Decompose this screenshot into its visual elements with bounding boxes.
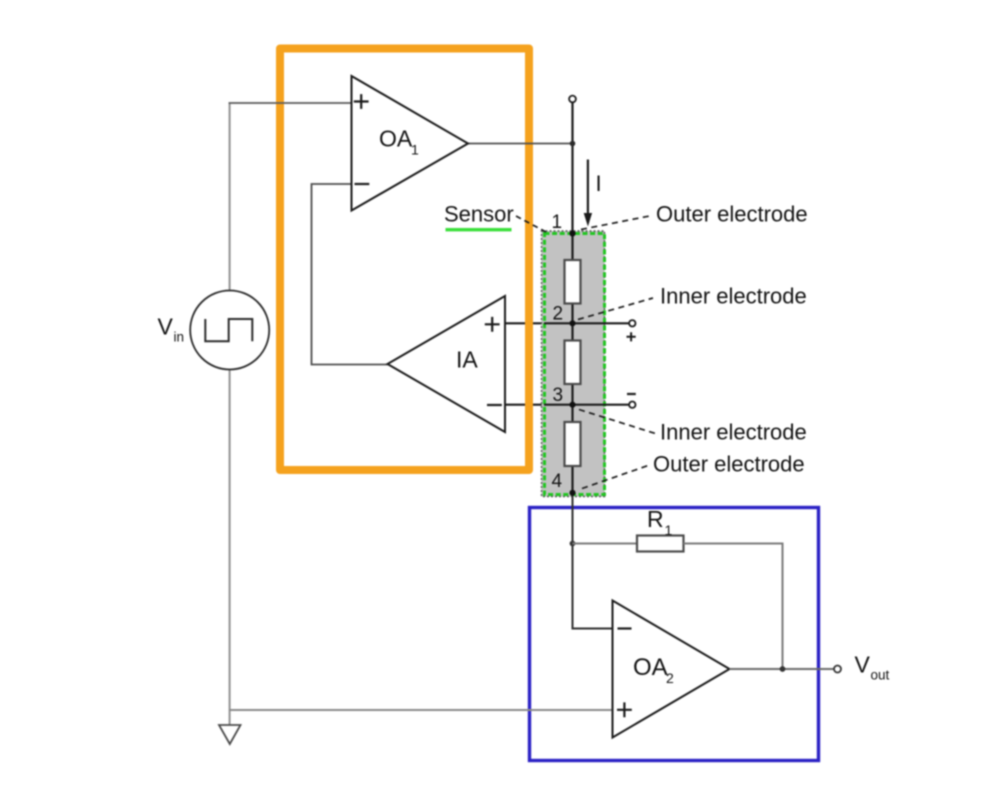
source Vin circle	[190, 291, 269, 370]
wire node2 to sense terminal +	[544, 322, 629, 324]
svg-text:2: 2	[553, 304, 564, 325]
wire node3 to sense terminal -	[544, 404, 629, 406]
svg-text:Inner electrode: Inner electrode	[660, 284, 807, 309]
op-amp OA2	[613, 601, 730, 738]
wire node4 down to OA2 - input	[573, 496, 613, 629]
junction feedback node	[570, 541, 576, 547]
svg-text:V: V	[855, 652, 871, 678]
IA minus input sign	[487, 404, 502, 406]
Sensor green underline	[446, 228, 512, 231]
svg-text:3: 3	[553, 385, 564, 406]
sensor resistor segment 1-2	[565, 260, 581, 304]
sensor resistor segment 3-4	[565, 422, 581, 466]
sense terminal open circle -	[629, 402, 635, 408]
wire OA2 output to Vout	[730, 668, 835, 670]
dashed leader node2 to Inner electrode	[578, 298, 653, 320]
wire Vin top vertical	[229, 103, 231, 292]
svg-text:out: out	[871, 668, 890, 683]
svg-text:OA: OA	[379, 125, 413, 151]
wire Vin to OA1 + input	[229, 102, 352, 104]
svg-text:I: I	[596, 171, 602, 196]
minus sign at sense terminal	[627, 393, 636, 395]
dashed leader node3 to Inner electrode	[579, 410, 657, 435]
svg-text:IA: IA	[456, 347, 478, 373]
svg-text:4: 4	[552, 471, 563, 492]
resistor R1	[637, 536, 684, 552]
svg-text:V: V	[158, 314, 174, 340]
wire ground rail to OA2 + input	[230, 709, 613, 711]
IA plus input sign	[485, 317, 500, 332]
instrumentation amp IA (points left)	[388, 296, 506, 432]
node 1 dot	[569, 230, 575, 236]
junction OA1 output node	[570, 141, 576, 147]
sense terminal open circle +	[629, 320, 635, 326]
output-block highlight box (blue)	[530, 508, 819, 761]
node 4 dot	[569, 490, 575, 496]
wire OA1 - input feedback	[312, 184, 388, 365]
wire IA+ to node2 (under orange box)	[505, 322, 546, 324]
node 2 dot	[569, 320, 575, 326]
wire top terminal vertical to sensor	[571, 102, 573, 234]
wire Vin bottom vertical to ground	[229, 370, 231, 726]
wire R1 to output node	[684, 544, 783, 670]
dashed leader Sensor to box	[516, 216, 546, 232]
sensor resistor segment 2-3	[565, 341, 581, 385]
node 3 dot	[569, 402, 575, 408]
OA2 plus input sign	[617, 702, 632, 717]
wire OA1 output to sensor top node	[468, 143, 573, 145]
driving-block highlight box (orange)	[280, 49, 529, 471]
sensor green dashed border	[545, 234, 605, 495]
svg-text:1: 1	[552, 212, 563, 233]
Vout open circle	[834, 666, 841, 673]
op-amp OA1	[352, 76, 469, 211]
sensor body (gray with dotted outline)	[542, 231, 605, 497]
svg-text:1: 1	[665, 522, 673, 538]
OA1 minus input sign	[355, 183, 370, 185]
current arrow I	[587, 160, 589, 215]
svg-text:Outer electrode: Outer electrode	[653, 451, 805, 476]
dashed leader node4 to Outer electrode	[582, 465, 651, 489]
wire junction to R1	[573, 543, 639, 545]
svg-text:Sensor: Sensor	[444, 201, 514, 226]
svg-text:Outer electrode: Outer electrode	[656, 202, 808, 227]
square wave symbol	[205, 319, 252, 341]
svg-text:OA: OA	[633, 654, 668, 681]
svg-text:R: R	[647, 506, 664, 532]
wire IA- to node3 (under orange box)	[505, 404, 546, 406]
dashed leader node1 to Outer electrode	[581, 216, 652, 230]
OA2 minus input sign	[618, 627, 632, 629]
sensor internal vertical line	[571, 233, 573, 496]
OA1 plus input sign	[354, 94, 369, 109]
svg-text:in: in	[174, 330, 185, 345]
plus sign at sense terminal	[627, 332, 636, 341]
svg-text:1: 1	[411, 142, 419, 158]
svg-text:2: 2	[666, 670, 674, 686]
ground symbol	[219, 725, 241, 744]
terminal open circle (top)	[569, 96, 576, 103]
junction output/feedback	[780, 666, 786, 672]
svg-text:Inner electrode: Inner electrode	[660, 420, 807, 445]
